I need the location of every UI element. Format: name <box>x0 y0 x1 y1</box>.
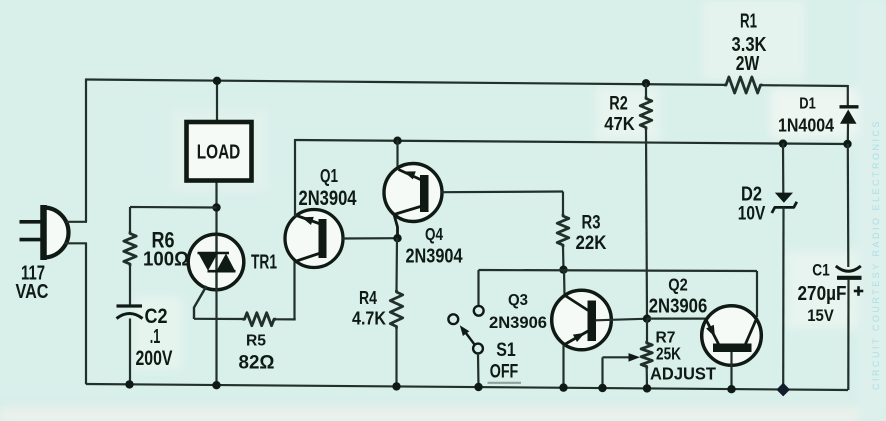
triac TR1 top bar <box>198 252 230 255</box>
transistor Q1 base bar <box>319 219 327 258</box>
wire C2 bottom lead <box>129 319 131 385</box>
triac TR1 left triangle <box>199 254 218 271</box>
label 3.3K <box>732 34 767 56</box>
wire Q4 base horizontal <box>442 190 564 193</box>
label Q3 <box>508 292 528 309</box>
label ADJUST <box>650 364 716 384</box>
label 4.7K <box>352 309 386 329</box>
label R7 <box>656 330 676 347</box>
capacitor C1 plus sign <box>854 286 864 296</box>
wire TR1 gate lead <box>194 286 207 319</box>
label 1N4004 <box>778 116 834 136</box>
node D1-rail junction <box>843 140 851 148</box>
transistor Q3 emitter lead <box>565 331 590 345</box>
wire Q1 base to node <box>343 237 399 240</box>
node R7-bottom junction <box>643 384 651 392</box>
wire load drop lower / TR1 top <box>215 179 217 236</box>
label C2 <box>145 304 168 328</box>
svg-text:R4: R4 <box>359 287 378 308</box>
node LOAD-top junction <box>213 77 221 85</box>
resistor R4 zigzag <box>390 290 402 329</box>
label 15V <box>807 307 834 325</box>
label S1 <box>496 340 516 361</box>
svg-text:S1: S1 <box>496 340 516 361</box>
label Q2 2N3906 <box>649 296 708 318</box>
node S1-bottom junction <box>474 383 482 391</box>
plug body (117VAC) <box>44 205 69 260</box>
svg-text:100Ω: 100Ω <box>143 249 189 271</box>
svg-text:2W: 2W <box>736 53 760 75</box>
wire top rail left segment <box>86 80 724 85</box>
label R6 <box>152 228 175 253</box>
wire R2 long vertical to Q3 base node <box>646 129 647 319</box>
node R3-Q3-S1 junction <box>559 266 567 274</box>
label 200V <box>136 346 173 370</box>
potentiometer R7 zigzag <box>641 341 652 369</box>
transistor Q2 base bar <box>713 344 752 353</box>
label C1 <box>812 261 830 280</box>
transistor Q4 base bar <box>420 175 429 212</box>
label D1 <box>799 96 816 113</box>
label D2 <box>741 184 762 206</box>
label R3 <box>582 213 601 234</box>
svg-text:15V: 15V <box>807 307 834 325</box>
label .1 <box>150 326 161 348</box>
resistor R1 zigzag <box>724 77 763 93</box>
LOAD box <box>187 122 252 181</box>
wire R6 upper lead <box>129 207 131 232</box>
label LOAD <box>197 141 241 164</box>
wire R6 top rail <box>130 206 217 209</box>
transistor Q1 emitter arrow <box>302 217 314 225</box>
label 47K <box>604 113 635 134</box>
svg-text:R1: R1 <box>740 11 757 33</box>
node Q3base-R7-Q2 junction <box>643 315 651 323</box>
label Q1 2N3904 <box>299 187 357 210</box>
label OFF underline <box>488 382 522 384</box>
margin artifact text <box>871 119 881 390</box>
triac TR1 bottom bar <box>208 270 236 273</box>
wire R4 upper lead <box>395 238 398 291</box>
svg-text:R2: R2 <box>609 93 628 115</box>
switch S1 pole contact <box>473 344 483 354</box>
svg-text:CIRCUIT COURTESY RADIO ELECTRO: CIRCUIT COURTESY RADIO ELECTRONICS <box>871 119 881 390</box>
wire R7 upper lead <box>646 319 648 343</box>
resistor R2 zigzag <box>640 97 652 130</box>
wire load drop upper <box>216 80 218 123</box>
wire S1 drop <box>477 270 479 306</box>
label TR1 <box>251 252 277 274</box>
wire left vertical lower (plug neutral) <box>85 243 87 384</box>
transistor Q2 emitter lead <box>706 319 719 344</box>
diode D1 cathode bar <box>840 105 859 108</box>
capacitor C1 curved plate <box>836 266 861 271</box>
svg-text:TR1: TR1 <box>251 252 277 274</box>
transistor Q1 circle <box>285 210 343 268</box>
node wiper-bottom junction <box>598 384 606 392</box>
wire bottom rail <box>86 384 848 390</box>
svg-text:R5: R5 <box>246 333 266 350</box>
node D2-bottom junction <box>776 383 790 397</box>
svg-text:1N4004: 1N4004 <box>778 116 834 136</box>
wire Q2 base down <box>730 352 732 389</box>
svg-text:2N3904: 2N3904 <box>406 246 464 268</box>
wire R6-C2 lead <box>129 266 131 306</box>
wire C1 lower lead <box>847 280 849 391</box>
transistor Q4 circle <box>384 164 442 222</box>
wire plug top stub <box>67 221 88 223</box>
wire Q3 collector up <box>563 270 566 297</box>
wire left vertical upper (plug hot) <box>85 79 87 223</box>
transistor Q2 circle <box>702 306 762 366</box>
svg-text:25K: 25K <box>656 344 681 364</box>
svg-text:R3: R3 <box>582 213 601 234</box>
wire R5 to Q1 collector <box>276 318 296 320</box>
label Q1 <box>320 165 338 186</box>
node TR1-bottom junction <box>212 381 220 389</box>
wire R2 upper lead <box>645 83 647 98</box>
wire D1 bottom lead <box>847 123 849 144</box>
zener D2 triangle <box>775 193 793 203</box>
node R2 top junction <box>642 79 650 87</box>
diode D1 triangle <box>840 110 857 124</box>
transistor Q1 collector lead <box>295 254 319 262</box>
label 117 <box>21 263 45 285</box>
wire Q3 base to node <box>596 319 649 321</box>
resistor R6 zigzag <box>124 232 136 267</box>
svg-text:2N3906: 2N3906 <box>489 313 547 332</box>
capacitor C1 flat plate <box>837 276 862 280</box>
node Q1-Q4-R4 junction <box>393 234 401 242</box>
wire plug bottom stub <box>65 242 88 244</box>
resistor R5 zigzag <box>243 313 277 326</box>
svg-text:270µF: 270µF <box>798 283 847 305</box>
label OFF <box>490 361 519 383</box>
wire TR1 main terminal 2 down <box>215 289 217 385</box>
wire DC bus rail <box>295 140 848 144</box>
transistor Q4 emitter arrow <box>404 171 416 179</box>
wire Q4 emitter up <box>396 140 398 169</box>
wire Q1 emitter up <box>294 139 296 217</box>
transistor Q2 collector lead <box>746 318 758 345</box>
potentiometer R7 wiper arrow <box>629 353 641 362</box>
wire Q1 collector vertical <box>293 259 295 320</box>
svg-text:Q2: Q2 <box>668 275 688 295</box>
plug prong upper <box>20 220 42 224</box>
wire R7 wiper down <box>601 357 603 388</box>
label Q2 <box>668 275 688 295</box>
svg-text:22K: 22K <box>576 233 607 254</box>
triac TR1 right triangle <box>217 254 236 271</box>
label Q3 2N3906 <box>489 313 547 332</box>
transistor Q4 emitter lead <box>399 170 422 181</box>
resistor R3 zigzag <box>557 214 569 247</box>
node Q2-bottom junction <box>727 385 735 393</box>
svg-text:VAC: VAC <box>16 280 49 303</box>
label 82ohm <box>239 353 275 374</box>
label Q4 2N3904 <box>406 246 464 268</box>
transistor Q4 collector lead <box>394 207 421 237</box>
wire S1-R3-Q2 horizontal bus <box>479 270 758 271</box>
svg-text:.1: .1 <box>150 326 161 348</box>
triac TR1 circle <box>188 234 244 290</box>
zener D2 bar <box>772 202 797 213</box>
svg-text:200V: 200V <box>136 346 173 370</box>
wire R3 upper lead <box>562 192 564 216</box>
svg-text:Q1: Q1 <box>320 165 338 186</box>
transistor Q3 circle <box>552 290 612 350</box>
node Q3-bottom junction <box>559 383 567 391</box>
svg-text:4.7K: 4.7K <box>352 309 386 329</box>
switch S1 arm arrow <box>460 325 470 336</box>
transistor Q2 emitter arrow <box>706 325 715 337</box>
wire C1 upper lead <box>847 144 850 267</box>
wire S1 pole down <box>477 354 480 388</box>
capacitor C2 bottom plate <box>117 314 143 319</box>
node Q4 emitter rail junction <box>393 137 401 145</box>
svg-text:47K: 47K <box>604 113 635 134</box>
node C2-bottom junction <box>125 380 133 388</box>
svg-text:LOAD: LOAD <box>197 141 241 164</box>
wire Q3 emitter down <box>562 345 564 388</box>
label 10V <box>738 203 766 225</box>
svg-text:Q4: Q4 <box>425 224 443 244</box>
wire top rail right segment <box>763 84 848 87</box>
svg-text:10V: 10V <box>738 203 766 225</box>
label R5 <box>246 333 266 350</box>
label 22K <box>576 233 607 254</box>
svg-text:2N3904: 2N3904 <box>299 187 357 210</box>
label 100ohm <box>143 249 189 271</box>
svg-text:82Ω: 82Ω <box>239 353 275 374</box>
plug prong lower <box>20 238 42 242</box>
svg-text:D1: D1 <box>799 96 816 113</box>
switch S1 top contact <box>474 306 484 316</box>
svg-text:C1: C1 <box>812 261 830 280</box>
svg-text:ADJUST: ADJUST <box>650 364 716 384</box>
label R2 <box>609 93 628 115</box>
svg-text:OFF: OFF <box>490 361 519 383</box>
svg-text:C2: C2 <box>145 304 168 328</box>
wire gate to R5 <box>194 318 243 320</box>
label R1 <box>740 11 757 33</box>
label 270uF <box>798 283 847 305</box>
node R4-bottom junction <box>392 382 400 390</box>
wire R3 lower lead <box>562 247 565 270</box>
transistor Q3 emitter arrow <box>573 333 585 342</box>
label VAC <box>16 280 49 303</box>
label R4 <box>359 287 378 308</box>
capacitor C2 top plate <box>117 304 143 307</box>
node D2-rail junction <box>779 139 787 147</box>
wire D2 lower lead <box>782 207 784 389</box>
transistor Q3 base bar <box>588 301 597 342</box>
svg-text:2N3906: 2N3906 <box>649 296 708 318</box>
wire R7 lower lead <box>646 368 648 388</box>
svg-text:Q3: Q3 <box>508 292 528 309</box>
wire R4 lower lead <box>395 328 397 386</box>
label Q4 <box>425 224 443 244</box>
node R6-rail junction <box>212 203 220 211</box>
transistor Q1 emitter lead <box>297 216 321 225</box>
wire D2 upper lead <box>782 143 784 193</box>
wire Q2 collector drop <box>756 271 758 317</box>
potentiometer R7 wiper wire <box>603 356 634 358</box>
triac TR1 vertical through-line <box>215 235 217 290</box>
transistor Q3 collector lead <box>565 296 589 312</box>
switch S1 arm <box>463 329 475 345</box>
label 25K <box>656 344 681 364</box>
label 2W <box>736 53 760 75</box>
switch S1 throw contact <box>448 314 458 324</box>
wire Q2 emitter horizontal <box>647 318 706 320</box>
wire D1 top lead <box>847 85 849 107</box>
